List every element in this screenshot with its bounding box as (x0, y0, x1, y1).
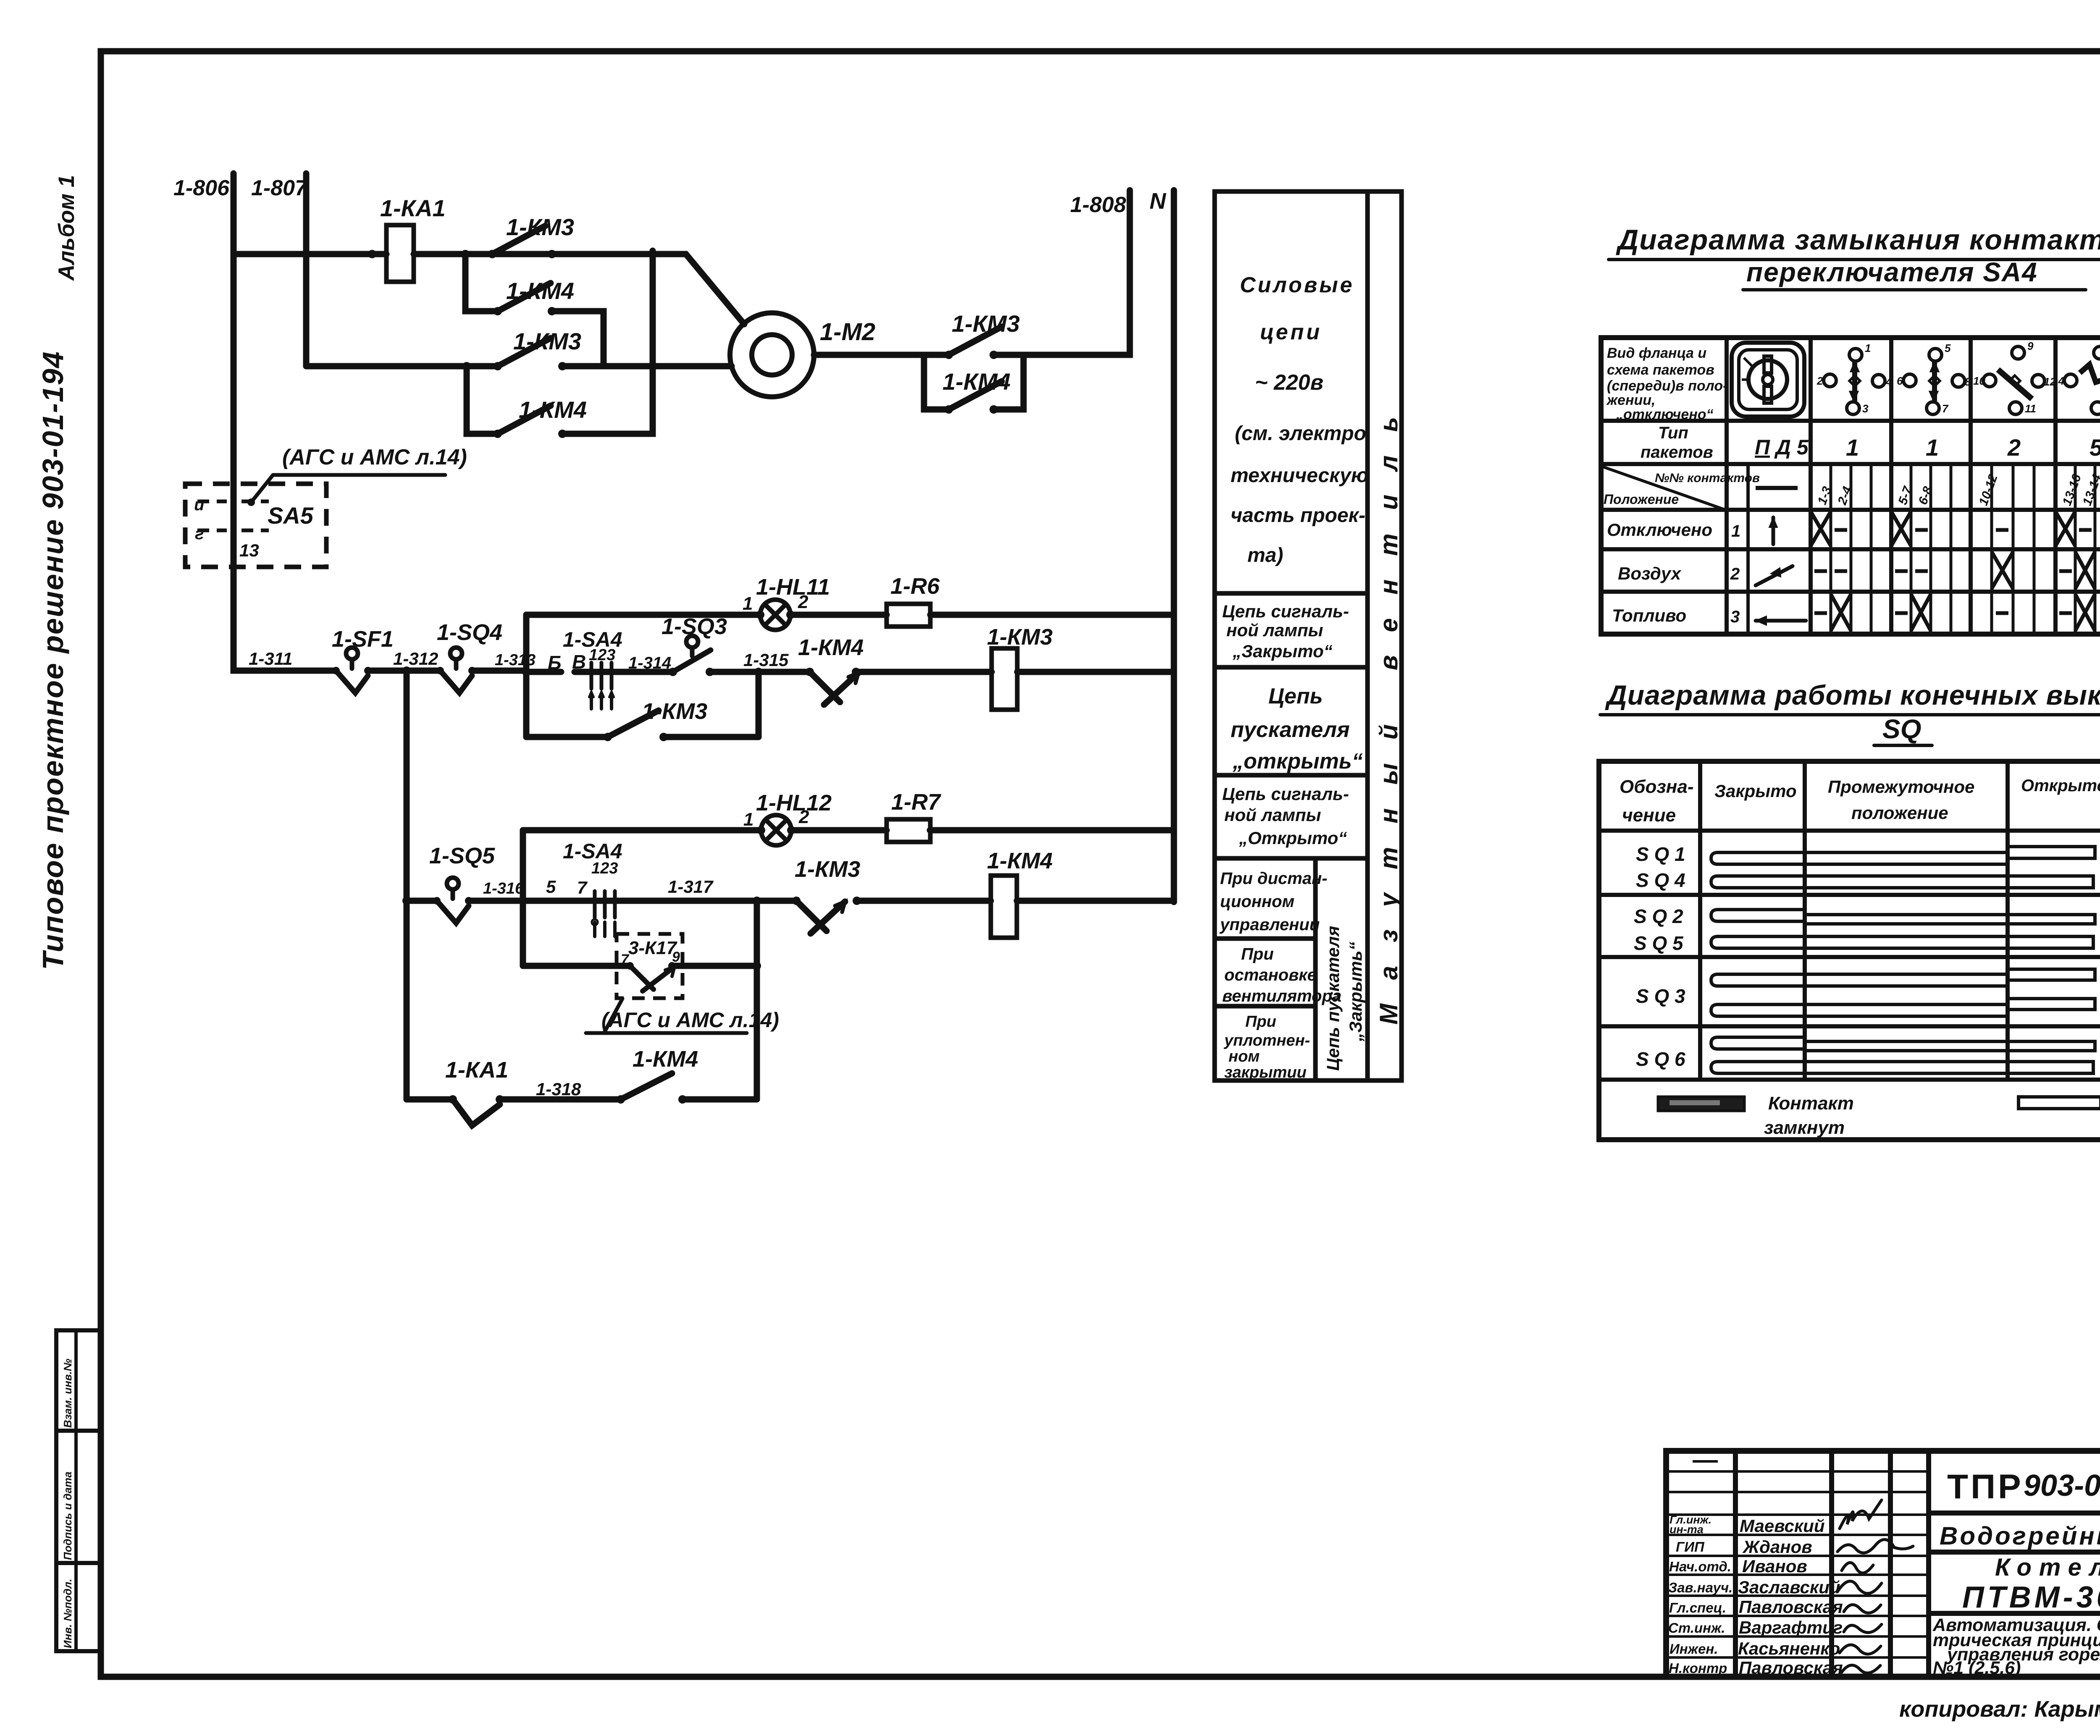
svg-text:903-01-194: 903-01-194 (2024, 1469, 2100, 1503)
svg-text:часть проек-: часть проек- (1231, 504, 1365, 527)
svg-text:техническую: техническую (1231, 464, 1368, 487)
svg-text:1-КМ4: 1-КМ4 (798, 635, 864, 660)
svg-text:При дистан-: При дистан- (1220, 869, 1327, 888)
svg-text:Цепь: Цепь (1268, 684, 1323, 708)
svg-text:SA5: SA5 (268, 502, 314, 529)
svg-text:1: 1 (1926, 434, 1939, 461)
svg-text:1: 1 (1846, 434, 1859, 461)
svg-text:„Закрыть“: „Закрыть“ (1346, 942, 1365, 1042)
svg-text:1-HL12: 1-HL12 (756, 790, 832, 816)
switch 1-SQ5 (437, 878, 469, 923)
svg-text:копировал: Карымова: копировал: Карымова (1899, 1697, 2100, 1722)
svg-text:„Открыто“: „Открыто“ (1239, 828, 1347, 848)
relay contact 3-K17 dashed box (617, 934, 682, 998)
svg-text:1-SQ5: 1-SQ5 (429, 843, 495, 868)
contact 1-KM4 upper (498, 283, 551, 311)
thin strip verticals (1831, 464, 2100, 634)
svg-text:1-R7: 1-R7 (891, 789, 942, 815)
svg-text:9: 9 (2027, 340, 2034, 352)
svg-text:1-SQ4: 1-SQ4 (437, 620, 502, 645)
svg-text:„отключено“: „отключено“ (1616, 406, 1714, 422)
rotated strip labels (1815, 472, 2100, 508)
wire KM4a branch (465, 254, 604, 366)
svg-text:1-КМ4: 1-КМ4 (987, 848, 1053, 873)
wire bus down to row2 (404, 671, 410, 1099)
contact 1-KM3 top (492, 226, 545, 254)
svg-text:1-М2: 1-М2 (820, 318, 875, 346)
motor 1-M2 (730, 313, 814, 397)
svg-text:Иванов: Иванов (1742, 1556, 1807, 1576)
wire bypass row1 (526, 734, 759, 740)
header contact pictograms (1824, 346, 2100, 414)
junction dots power circuit (368, 250, 998, 438)
svg-text:(см. электро: (см. электро (1235, 422, 1366, 445)
svg-text:6: 6 (1897, 375, 1903, 387)
svg-text:SQ: SQ (1882, 714, 1921, 744)
svg-text:Открыто: Открыто (2021, 776, 2100, 795)
svg-text:Контакт: Контакт (1768, 1093, 1854, 1114)
svg-text:1: 1 (743, 593, 753, 614)
N bus vertical (1171, 190, 1177, 902)
svg-text:7: 7 (577, 878, 588, 897)
svg-text:При: При (1241, 945, 1274, 963)
svg-text:1: 1 (1731, 522, 1740, 540)
svg-text:S Q 5: S Q 5 (1634, 932, 1684, 954)
contact bars (1711, 847, 2095, 1073)
svg-text:схема пакетов: схема пакетов (1607, 362, 1714, 378)
wire KM4b branch (467, 251, 653, 434)
svg-text:1-КМ3: 1-КМ3 (987, 624, 1053, 650)
svg-text:Зав.науч.: Зав.науч. (1668, 1580, 1732, 1595)
svg-text:1-808: 1-808 (1070, 193, 1126, 217)
bar SQ2 upper (1711, 910, 2095, 924)
svg-text:№№ контактов: №№ контактов (1655, 471, 1760, 485)
svg-text:ном: ном (1228, 1048, 1260, 1065)
wire KM4 right branch (924, 355, 1024, 409)
svg-text:жении,: жении, (1606, 392, 1655, 408)
svg-text:Ст.инж.: Ст.инж. (1668, 1620, 1725, 1636)
bar SQ6 upper (1711, 1037, 2095, 1051)
resistor 1-R7 (887, 819, 930, 842)
svg-text:Инв. №подл.: Инв. №подл. (61, 1579, 74, 1648)
contact 1-KM3 bypass (608, 711, 659, 737)
svg-text:Обозна-: Обозна- (1620, 776, 1694, 797)
svg-text:ТПР: ТПР (1947, 1468, 2024, 1506)
svg-text:4: 4 (1885, 375, 1892, 388)
svg-text:Цепь пускателя: Цепь пускателя (1323, 926, 1343, 1071)
relay coil 1-KA1 (386, 225, 414, 282)
packet switch 1-SA4 row2 (592, 891, 615, 936)
switch 1-SQ3 (673, 636, 711, 672)
svg-text:Цепь сигналь-: Цепь сигналь- (1222, 601, 1349, 621)
svg-text:Альбом 1: Альбом 1 (54, 175, 79, 281)
pictogram col 1/3 (1824, 349, 1885, 414)
svg-text:1-КМ3: 1-КМ3 (513, 328, 581, 354)
svg-text:„открыть“: „открыть“ (1232, 749, 1363, 774)
svg-text:В: В (572, 651, 586, 673)
svg-text:Б: Б (548, 652, 562, 674)
svg-text:Промежуточное: Промежуточное (1828, 777, 1974, 797)
junction row2-box (519, 897, 527, 905)
svg-text:1-SA4: 1-SA4 (563, 839, 622, 863)
SA4 contact-closure table (1601, 338, 2100, 634)
row2 dashes (1814, 569, 2100, 573)
X and dash marks (1811, 511, 2100, 631)
svg-text:Маевский: Маевский (1740, 1516, 1825, 1536)
signature squiggles (1837, 1500, 1913, 1673)
svg-text:Котел: Котел (1995, 1554, 2100, 1581)
svg-text:S Q 1: S Q 1 (1636, 843, 1685, 865)
svg-text:Инжен.: Инжен. (1669, 1641, 1718, 1657)
junction row2 right (753, 897, 761, 905)
signature names (1738, 1516, 1843, 1678)
title block (1666, 1451, 2100, 1677)
svg-text:Н.контр: Н.контр (1669, 1660, 1727, 1676)
bar SQ2 lower (SQ5) (1711, 936, 2093, 948)
wire rail row2 (407, 898, 1174, 904)
svg-text:8: 8 (1965, 375, 1971, 388)
pictogram col 5/7 (1903, 349, 1965, 414)
svg-text:Диаграмма замыкания контак: Диаграмма замыкания контактов (1616, 224, 2100, 256)
svg-text:Положение: Положение (1604, 492, 1679, 507)
svg-text:уплотнен-: уплотнен- (1223, 1032, 1310, 1049)
svg-text:5: 5 (546, 877, 556, 897)
svg-text:(АГС и АМС л.14): (АГС и АМС л.14) (601, 1008, 779, 1032)
contact 1-KM3 lower (498, 338, 551, 366)
svg-text:1-313: 1-313 (495, 651, 535, 669)
svg-text:ной лампы: ной лампы (1226, 620, 1323, 640)
svg-text:1-КМ3: 1-КМ3 (952, 310, 1020, 337)
svg-text:S Q 4: S Q 4 (1636, 869, 1685, 891)
svg-text:Взам. инв.№: Взам. инв.№ (61, 1358, 74, 1428)
signature roles (1668, 1513, 1732, 1676)
pictogram pin numbers (1816, 340, 2100, 415)
bottom-left frame mini table (56, 1330, 101, 1651)
svg-text:Водогрейные котлы типа ПТВМ: Водогрейные котлы типа ПТВМ (1940, 1522, 2100, 1550)
svg-text:7: 7 (621, 952, 630, 968)
position arrows (1756, 517, 1806, 625)
legend open contact sample (2019, 1097, 2100, 1109)
svg-text:2: 2 (798, 592, 808, 612)
svg-text:замкнут: замкнут (1764, 1117, 1845, 1138)
svg-text:1-SF1: 1-SF1 (332, 627, 394, 652)
svg-text:При: При (1245, 1013, 1276, 1031)
contact 1-KM3 right (949, 327, 1002, 355)
contact blade 3-K17 (630, 966, 675, 991)
svg-text:1-R6: 1-R6 (890, 574, 940, 599)
legend closed contact sample (1658, 1097, 1744, 1111)
svg-text:1-КМ4: 1-КМ4 (506, 278, 574, 304)
row3 X marks (1831, 594, 1851, 631)
svg-text:остановке: остановке (1224, 966, 1317, 984)
svg-text:N: N (1150, 189, 1166, 214)
svg-text:S Q 2: S Q 2 (1634, 905, 1683, 927)
svg-text:Закрыто: Закрыто (1714, 781, 1797, 801)
svg-text:1-КМ4: 1-КМ4 (519, 396, 587, 423)
svg-text:Отключено: Отключено (1607, 520, 1712, 540)
svg-text:1-КМ4: 1-КМ4 (633, 1046, 698, 1072)
svg-text:14: 14 (2052, 375, 2064, 387)
cell: силовые цепи (1231, 273, 1368, 566)
svg-text:1-КМ3: 1-КМ3 (795, 857, 860, 882)
resistor 1-R6 (887, 604, 930, 627)
svg-text:пускателя: пускателя (1231, 718, 1350, 742)
pictogram col 13-16 (2064, 346, 2100, 414)
svg-text:Топливо: Топливо (1612, 606, 1686, 625)
svg-text:переключателя SA4: переключателя SA4 (1746, 257, 2038, 287)
svg-text:1-КМ3: 1-КМ3 (506, 214, 574, 240)
svg-text:П Д 5: П Д 5 (1755, 435, 1809, 459)
bar SQ3 upper (1711, 969, 2095, 986)
contact 1-KM4 right (949, 381, 1002, 409)
row3 dashes (1814, 611, 2100, 615)
svg-text:1-КА1: 1-КА1 (380, 195, 446, 221)
svg-text:3-К17: 3-К17 (628, 938, 678, 958)
row1 dashes (1835, 528, 2100, 532)
bar SQ3 lower (1711, 999, 2095, 1016)
svg-text:Гл.спец.: Гл.спец. (1669, 1600, 1726, 1615)
svg-text:Цепь сигналь-: Цепь сигналь- (1222, 784, 1349, 804)
svg-text:1-КА1: 1-КА1 (445, 1057, 508, 1083)
svg-text:Подпись и дата: Подпись и дата (61, 1471, 74, 1560)
svg-text:„Закрыто“: „Закрыто“ (1232, 641, 1333, 661)
svg-text:1-311: 1-311 (249, 649, 292, 669)
svg-text:1-807: 1-807 (251, 176, 308, 200)
middle circuit-function table (1215, 191, 1402, 1080)
svg-text:Тип: Тип (1658, 424, 1688, 442)
svg-text:ной лампы: ной лампы (1224, 805, 1321, 825)
wire row2 left box vertical (520, 830, 526, 966)
svg-text:Павловская: Павловская (1739, 1658, 1843, 1678)
wire lamp row 1 (526, 612, 1174, 618)
packet switch 1-SA4 row1 (589, 663, 614, 709)
contact 1-KM4 bottom (621, 1073, 672, 1099)
svg-text:управлении: управлении (1219, 915, 1320, 934)
wire bottom row (407, 1096, 757, 1103)
svg-text:3: 3 (1862, 402, 1869, 415)
svg-text:1-SQ3: 1-SQ3 (661, 614, 727, 639)
selector switch SA5 dashed box (185, 484, 326, 567)
row2 X marks (1992, 552, 2013, 589)
coil 1-KM3 (992, 648, 1017, 710)
contact 1-KA1 bottom (453, 1099, 500, 1125)
svg-text:2: 2 (1730, 565, 1740, 583)
svg-text:Силовые: Силовые (1240, 273, 1354, 297)
contact 1-KM3 NC row2 (796, 901, 845, 934)
svg-text:Вид фланца и: Вид фланца и (1607, 345, 1706, 361)
svg-text:Воздух: Воздух (1618, 564, 1682, 583)
bar SQ1 upper (1711, 847, 2095, 864)
svg-text:7: 7 (1942, 402, 1949, 415)
svg-text:(АГС и АМС л.14): (АГС и АМС л.14) (282, 445, 467, 469)
svg-text:г: г (195, 524, 204, 543)
svg-text:3: 3 (1730, 608, 1740, 626)
svg-text:10: 10 (1973, 375, 1985, 387)
svg-text:Павловская: Павловская (1739, 1597, 1843, 1617)
svg-text:1-HL11: 1-HL11 (756, 574, 830, 600)
wire top rail (234, 254, 744, 324)
svg-text:S Q 3: S Q 3 (1636, 985, 1685, 1007)
svg-text:13: 13 (239, 540, 259, 560)
svg-text:5: 5 (2089, 434, 2100, 461)
svg-text:Заславский: Заславский (1738, 1577, 1840, 1597)
wire row1 left box vertical (523, 615, 530, 737)
svg-text:S Q 6: S Q 6 (1636, 1048, 1685, 1070)
breaker 1-SF1 (336, 648, 368, 693)
svg-text:2: 2 (798, 807, 809, 827)
svg-text:1-317: 1-317 (668, 877, 714, 897)
bus 1-806 vertical (231, 173, 237, 671)
svg-text:Жданов: Жданов (1742, 1537, 1812, 1557)
svg-text:1: 1 (743, 809, 753, 830)
row1 X marks (1811, 511, 1831, 546)
svg-text:пакетов: пакетов (1641, 443, 1713, 462)
switch 1-SQ4 (440, 648, 472, 693)
svg-text:Диаграмма работы конечных в: Диаграмма работы конечных выключателей (1605, 679, 2100, 711)
dash in ПД5 col (1756, 486, 1798, 490)
wire 3-K17 branch (523, 963, 757, 969)
junction dots row2 (433, 826, 861, 1104)
svg-text:ГИП: ГИП (1676, 1539, 1705, 1555)
diagonal header cell (1601, 466, 1725, 510)
svg-text:и: и (194, 496, 204, 514)
contact 1-KM4 NC row1 (810, 672, 858, 705)
svg-text:2: 2 (2007, 434, 2021, 461)
wire rail 1-311 (234, 567, 526, 671)
svg-text:11: 11 (2025, 402, 2036, 415)
junction 1-315 vertical (756, 672, 762, 737)
svg-text:Варгафтиг: Варгафтиг (1739, 1618, 1843, 1637)
junction dot 1-312 (402, 666, 411, 675)
svg-text:1-КМ4: 1-КМ4 (942, 368, 1011, 395)
svg-text:№1 (2,5,6): №1 (2,5,6) (1933, 1658, 2021, 1678)
svg-text:закрытии: закрытии (1224, 1064, 1307, 1081)
svg-text:9: 9 (672, 949, 680, 965)
svg-text:1-314: 1-314 (628, 654, 671, 672)
pictogram col 9-12 (1983, 346, 2045, 414)
junction dots row1 (332, 611, 860, 741)
svg-text:1-КМ3: 1-КМ3 (642, 699, 707, 724)
wire motor right rail (814, 190, 1130, 355)
svg-text:1-316: 1-316 (483, 880, 524, 897)
svg-text:Типовое проектное решение 9: Типовое проектное решение 903-01-194 (37, 351, 69, 970)
svg-text:Касьяненко: Касьяненко (1738, 1639, 1840, 1658)
SQ limit-switch table (1599, 761, 2100, 1140)
svg-text:5: 5 (1945, 342, 1951, 354)
wire lamp row 2 (523, 827, 1174, 834)
bar SQ1 lower (SQ4) (1711, 876, 2093, 888)
svg-text:1-315: 1-315 (743, 650, 789, 670)
lamp 1-HL12 (761, 815, 791, 845)
svg-text:положение: положение (1851, 803, 1948, 823)
svg-text:чение: чение (1622, 805, 1676, 826)
svg-text:Мазутный вентиль: Мазутный вентиль (1375, 393, 1403, 1025)
coil 1-KM4 (991, 876, 1017, 938)
svg-text:1-318: 1-318 (536, 1079, 581, 1099)
lamp 1-HL11 (760, 600, 790, 630)
wire lower motor rail (306, 363, 732, 370)
wire vertical 1-317 down (754, 901, 760, 1099)
svg-text:2: 2 (1816, 375, 1823, 387)
svg-text:1-312: 1-312 (393, 649, 438, 669)
svg-text:ин-та: ин-та (1669, 1523, 1704, 1536)
bar SQ6 lower (1711, 1062, 2093, 1073)
contact 1-KM4 lower (498, 406, 551, 434)
svg-text:1-806: 1-806 (173, 176, 230, 200)
switch front view pictogram (1732, 343, 1804, 417)
svg-text:Нач.отд.: Нач.отд. (1669, 1559, 1731, 1574)
svg-text:та): та) (1247, 544, 1283, 566)
bus 1-807 vertical (303, 173, 310, 366)
wire rail row1 right (526, 669, 1174, 675)
svg-text:1-SA4: 1-SA4 (563, 628, 622, 651)
svg-text:цепи: цепи (1260, 320, 1322, 344)
svg-text:1: 1 (1865, 342, 1871, 354)
svg-text:ПТВМ-30М: ПТВМ-30М (1962, 1581, 2100, 1614)
svg-text:~ 220в: ~ 220в (1255, 370, 1323, 395)
svg-text:ционном: ционном (1220, 892, 1294, 911)
svg-text:(спереди)в поло-: (спереди)в поло- (1607, 378, 1727, 394)
signature table row lines (1666, 1461, 1929, 1657)
